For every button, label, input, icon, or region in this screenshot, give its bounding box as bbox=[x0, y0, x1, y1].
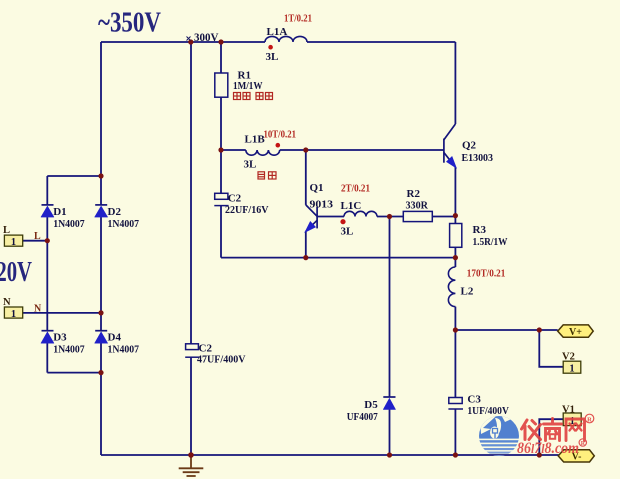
wire C3 column bbox=[454, 330, 456, 455]
red note 自馈 (self-feed winding) bbox=[258, 172, 276, 179]
polarity dot L1A bbox=[268, 45, 273, 50]
wire Q2 collector top bbox=[454, 42, 456, 124]
junction node Q1 emitter rail bbox=[303, 255, 308, 260]
wire bridge top bbox=[47, 175, 101, 177]
wire Q1 emitter drop bbox=[305, 231, 307, 258]
wire Q1 collector drop bbox=[305, 150, 307, 205]
junction node R1 top bbox=[218, 39, 223, 44]
wire R3 bottom to mid rail bbox=[454, 247, 456, 257]
inductor L1B (humps below line) bbox=[246, 150, 280, 155]
wire D5 column bbox=[389, 217, 391, 456]
polarity dot L1C bbox=[340, 219, 345, 224]
logo globe (blue striped disc) bbox=[478, 411, 520, 457]
wire bridge bottom bbox=[47, 372, 101, 374]
wire bottom ground rail bbox=[101, 454, 559, 456]
junction node L2 bottom/C3/V+ bbox=[453, 327, 458, 332]
inductor L1C bbox=[344, 211, 377, 216]
junction node R3 bottom/L2 top bbox=[453, 255, 458, 260]
junction node V2 tap bbox=[537, 327, 542, 332]
port V1 (box with pin 1) bbox=[562, 405, 581, 427]
transistor Q1 9013 (NPN, mirrored) bbox=[306, 205, 317, 231]
port L (box with pin 1) bbox=[3, 225, 23, 248]
watermark registered mark (top) bbox=[585, 414, 594, 423]
junction node L1B/Q1 collector/Q2 base bbox=[303, 147, 308, 152]
capacitor C2 (22UF/16V) polarized bbox=[214, 193, 228, 205]
resistor R2 bbox=[403, 211, 432, 221]
wire N input stub bbox=[23, 312, 101, 314]
power port V- (hexagon) bbox=[558, 450, 594, 463]
wire L1C to node bbox=[377, 216, 403, 218]
diode D5 UF4007 bbox=[383, 397, 395, 410]
watermark char 网 bbox=[566, 419, 585, 441]
wire mid emitter rail bbox=[221, 257, 455, 259]
wire left drop from top rail to bridge bbox=[100, 42, 102, 176]
wire R2 right to Q2 emitter node bbox=[432, 216, 455, 218]
wire D2 column bbox=[100, 176, 102, 373]
diode D4 1N4007 bbox=[95, 331, 108, 344]
wire Q2 emitter to R3 bbox=[454, 167, 456, 224]
wire R1 to L1B junction bbox=[220, 97, 222, 150]
wire V2 tap bbox=[539, 330, 563, 367]
transistor Q2 E13003 (NPN) bbox=[444, 124, 456, 167]
wire V1 tap bbox=[539, 419, 563, 455]
wire L1B row and feedback line to Q2 base bbox=[221, 149, 444, 151]
power port V+ (hexagon) bbox=[558, 325, 594, 338]
junction node bridge bottom (D3/D4 anodes) bbox=[98, 370, 103, 375]
junction node L1C/R2/D5 bbox=[387, 214, 392, 219]
polarity dot L1B bbox=[276, 143, 281, 148]
port N (box with pin 1) bbox=[3, 297, 23, 320]
svg-text:R: R bbox=[587, 417, 592, 424]
junction node C3 bottom/rail bbox=[453, 452, 458, 457]
port V2 (box with pin 1) bbox=[562, 352, 581, 375]
wire output row to V+ bbox=[455, 329, 557, 331]
junction node Q2 emitter/R2/R3 bbox=[453, 213, 458, 218]
wire left bottom drop bbox=[100, 373, 102, 455]
inductor L2 (vertical, humps left) bbox=[448, 267, 455, 307]
wire C2b column (22UF) bbox=[220, 150, 222, 258]
junction node N input bbox=[98, 310, 103, 315]
watermark char 商 bbox=[544, 419, 562, 441]
wire top rail 300V net bbox=[101, 41, 455, 43]
watermark registered mark (bottom) bbox=[579, 439, 586, 447]
resistor R1 bbox=[215, 73, 228, 97]
red note 启动电阻 (startup resistor) bbox=[234, 93, 273, 100]
diode D2 1N4007 bbox=[95, 205, 108, 217]
diode D3 1N4007 bbox=[41, 331, 54, 344]
wire R1 column top bbox=[220, 42, 222, 73]
wire L input stub bbox=[23, 240, 48, 242]
junction node ground bbox=[188, 452, 194, 458]
wire Q1 base to L1C bbox=[317, 216, 344, 218]
capacitor C3 (1UF/400V) polarized bbox=[448, 398, 463, 410]
watermark char 仪 bbox=[522, 420, 541, 440]
wire L2 leads bbox=[454, 258, 456, 330]
junction node 300V label point bbox=[188, 39, 193, 44]
svg-text:86l7l8.com: 86l7l8.com bbox=[517, 440, 579, 457]
wire D1 column bbox=[46, 176, 48, 373]
diode D1 1N4007 bbox=[41, 205, 54, 217]
svg-text:R: R bbox=[581, 441, 586, 447]
junction node L input bbox=[45, 238, 50, 243]
junction node R1/L1B/C2 bbox=[218, 147, 223, 152]
resistor R3 bbox=[450, 224, 462, 248]
junction node V1 tap bbox=[537, 452, 542, 457]
inductor L1A bbox=[265, 36, 307, 42]
capacitor C2 (47UF/400V) polarized bbox=[185, 344, 199, 357]
junction node bridge top (D1/D2 cathodes) bbox=[98, 173, 103, 178]
junction node D5 anode/rail bbox=[387, 452, 392, 457]
wire C2a column (47UF) bbox=[190, 42, 192, 455]
ground symbol bbox=[179, 457, 204, 477]
